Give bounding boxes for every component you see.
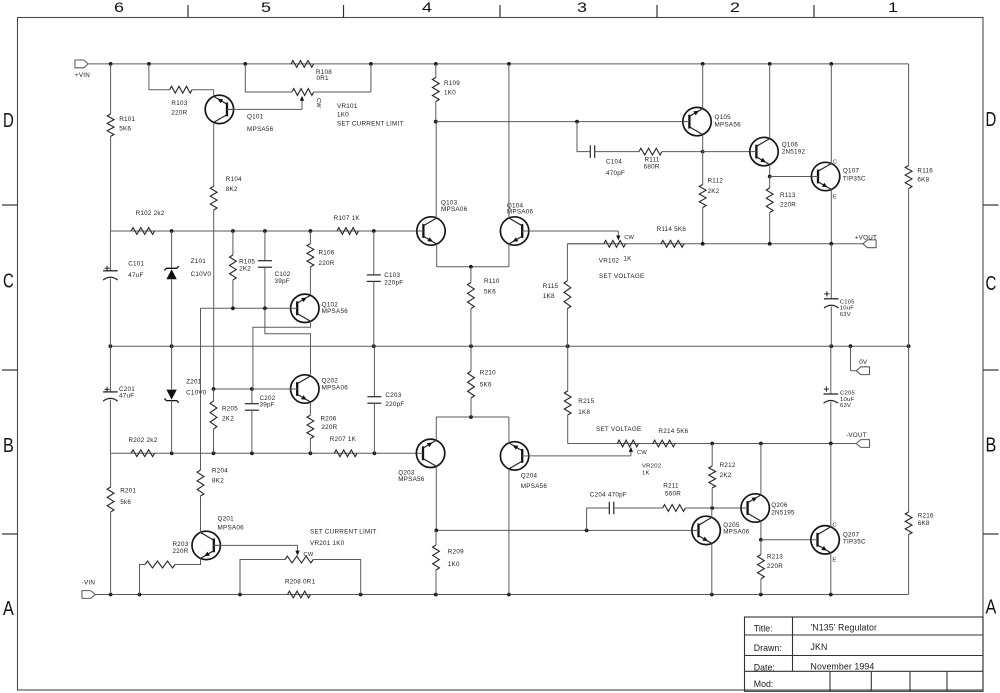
junction mid-rail/R105	[231, 229, 235, 233]
junction emitters/R210	[469, 415, 473, 419]
svg-text:1K0: 1K0	[337, 111, 349, 118]
svg-text:C: C	[833, 159, 838, 165]
junction +VIN/R109	[434, 62, 438, 66]
junction -VOUT/C205-Q207	[829, 442, 833, 446]
junction +VIN/Q107 collector	[829, 62, 833, 66]
resistor R211	[663, 482, 686, 511]
resistor R101	[107, 64, 135, 231]
wire Q104 collector	[508, 64, 510, 218]
svg-text:R209: R209	[448, 548, 464, 555]
svg-text:63V: 63V	[840, 403, 851, 409]
svg-text:1K8: 1K8	[578, 409, 590, 416]
svg-text:2K2: 2K2	[239, 265, 251, 272]
svg-text:220R: 220R	[321, 424, 337, 431]
wire R211 to Q206 base	[685, 507, 741, 509]
wiper arrow VR201	[295, 551, 313, 558]
junction Q102 base/R105	[231, 306, 235, 310]
wire VR201 right lead	[313, 560, 361, 595]
svg-text:Q201: Q201	[218, 515, 235, 522]
wire Q104 base to VR102 wiper	[529, 231, 619, 236]
svg-text:47uF: 47uF	[128, 272, 143, 279]
svg-text:Z201: Z201	[186, 379, 202, 386]
junction +VIN/Q106 collector	[768, 62, 772, 66]
svg-text:MPSA56: MPSA56	[398, 476, 425, 483]
junction +VIN/R108 right	[369, 62, 373, 66]
-VIN input terminal	[82, 579, 96, 598]
junction +VIN/R108 left	[243, 62, 247, 66]
wiper arrow VR102	[616, 235, 634, 241]
svg-text:C: C	[832, 522, 837, 528]
svg-text:R202 2k2: R202 2k2	[129, 437, 158, 444]
title block	[745, 617, 984, 691]
junction Q102 base/C102	[263, 306, 267, 310]
svg-text:R113: R113	[780, 192, 796, 199]
svg-text:6K8: 6K8	[917, 177, 929, 184]
svg-text:R110: R110	[484, 278, 500, 285]
junction +VIN/Q105 emitter	[701, 62, 705, 66]
resistor R106	[307, 231, 335, 295]
svg-text:SET VOLTAGE: SET VOLTAGE	[596, 426, 641, 433]
junction bot-mid/R205	[212, 451, 216, 455]
svg-text:-VOUT: -VOUT	[846, 432, 867, 439]
svg-text:560R: 560R	[665, 491, 681, 498]
svg-text:1K0: 1K0	[448, 561, 460, 568]
svg-text:5K6: 5K6	[119, 125, 131, 132]
capacitor C203	[367, 346, 404, 453]
wire R109 to Q103 collector	[435, 122, 437, 218]
wire Q202 base line	[214, 388, 291, 390]
svg-text:R115: R115	[543, 283, 559, 290]
junction -VIN/R203	[138, 593, 142, 597]
svg-text:MPSA56: MPSA56	[247, 126, 274, 133]
resistor R215	[564, 346, 594, 416]
svg-text:5: 5	[261, 0, 271, 15]
resistor R216	[905, 346, 934, 534]
svg-text:R216: R216	[918, 513, 934, 520]
transistor Q103	[417, 200, 468, 246]
wire Q106 emitter to Q107 base	[770, 176, 811, 178]
wire Q206 collector	[760, 444, 762, 495]
svg-text:C10V0: C10V0	[191, 271, 212, 278]
svg-text:Q105: Q105	[715, 114, 732, 121]
junction 0V/R110-R210	[469, 344, 473, 348]
svg-text:Q204: Q204	[521, 473, 538, 480]
resistor R210	[468, 346, 497, 417]
wire Q204 emitter	[508, 417, 510, 443]
-VOUT terminal	[846, 432, 870, 447]
transistor Q106	[750, 137, 806, 165]
wiper arrow VR101	[300, 96, 321, 109]
svg-text:5k6: 5k6	[120, 499, 131, 506]
junction C204 branch	[585, 529, 589, 533]
svg-text:VR202: VR202	[642, 464, 661, 470]
svg-text:2K2: 2K2	[720, 472, 732, 479]
svg-text:R204: R204	[212, 468, 228, 475]
svg-text:0V: 0V	[859, 359, 868, 366]
wire Q101 base to VR101 wiper	[227, 99, 302, 110]
svg-text:JKN: JKN	[811, 642, 828, 652]
wire C204 to R211	[614, 507, 663, 509]
capacitor C104	[590, 145, 625, 177]
wire Q201 emitter to R203	[175, 558, 201, 564]
svg-text:MPSA56: MPSA56	[521, 483, 548, 490]
resistor R203	[145, 541, 189, 568]
junction +VIN/R101	[109, 62, 113, 66]
wire VR201 left lead	[240, 560, 285, 595]
svg-text:-VIN: -VIN	[82, 579, 96, 586]
svg-text:1K8: 1K8	[543, 293, 555, 300]
wire VR102 left lead to R115	[567, 244, 604, 281]
svg-text:D: D	[986, 108, 997, 131]
svg-text:63V: 63V	[840, 312, 851, 318]
potentiometer VR101	[292, 89, 404, 128]
svg-text:6K8: 6K8	[918, 520, 930, 527]
0V terminal	[856, 359, 869, 375]
junction Q202 base/stair	[250, 387, 254, 391]
junction 0V/C105-C205	[829, 344, 833, 348]
svg-text:R212: R212	[720, 462, 736, 469]
junction mid-rail/C102	[263, 229, 267, 233]
svg-text:1K: 1K	[623, 256, 632, 263]
svg-text:C205: C205	[840, 391, 856, 397]
svg-text:5K6: 5K6	[484, 288, 496, 295]
+VIN input terminal	[75, 60, 90, 79]
svg-text:2: 2	[730, 0, 740, 15]
svg-text:R101: R101	[119, 116, 135, 123]
junction bot-mid/C202	[250, 451, 254, 455]
svg-text:+VIN: +VIN	[75, 72, 90, 79]
potentiometer VR102	[599, 240, 645, 279]
svg-text:10uF: 10uF	[840, 306, 855, 312]
svg-text:Z101: Z101	[191, 258, 207, 265]
junction 0V/R116-R216	[907, 344, 911, 348]
svg-text:+VOUT: +VOUT	[855, 234, 877, 241]
junction bot-mid/R206	[309, 451, 313, 455]
zener Z201	[164, 346, 206, 453]
svg-text:220R: 220R	[767, 563, 783, 570]
wire Q201 collector	[200, 496, 202, 533]
svg-text:SET VOLTAGE: SET VOLTAGE	[599, 273, 644, 280]
wire +VIN rail	[88, 63, 908, 65]
junction Q202 base/R104-R205	[212, 387, 216, 391]
resistor R102	[131, 210, 165, 234]
junction 0V/C101-C201	[109, 344, 113, 348]
wire Q102 collector stair	[253, 321, 311, 389]
svg-text:November 1994: November 1994	[811, 662, 875, 672]
wire Q105 base line	[436, 121, 683, 123]
svg-text:Q206: Q206	[771, 502, 788, 509]
wire Q106 base	[703, 151, 750, 153]
svg-text:220pF: 220pF	[385, 401, 404, 408]
resistor R202	[129, 437, 158, 457]
transistor Q105	[683, 107, 741, 135]
svg-text:D: D	[3, 109, 14, 132]
svg-text:MPSA06: MPSA06	[441, 206, 468, 213]
wire +VOUT rail	[567, 243, 863, 245]
resistor R108	[291, 61, 332, 83]
svg-text:3: 3	[577, 0, 587, 15]
junction +VIN/Q104 collector	[507, 62, 511, 66]
svg-text:MPSA06: MPSA06	[322, 384, 349, 391]
wire VR101 left lead	[245, 64, 292, 92]
svg-text:R103: R103	[171, 100, 187, 107]
wire -VIN rail	[95, 594, 908, 596]
svg-text:4: 4	[422, 0, 432, 15]
svg-text:MPSA56: MPSA56	[322, 308, 349, 315]
svg-text:C: C	[3, 270, 14, 293]
resistor R107	[334, 215, 361, 234]
zener Z101	[164, 231, 211, 346]
wire 0V center rail	[110, 345, 908, 347]
svg-text:VR201 1K0: VR201 1K0	[310, 540, 345, 547]
wire Q206 emitter	[760, 521, 762, 540]
svg-text:R207 1K: R207 1K	[330, 436, 357, 443]
transistor Q102	[291, 294, 349, 322]
junction -VIN/R213	[759, 593, 763, 597]
svg-text:R114 5K6: R114 5K6	[657, 226, 687, 233]
svg-text:0R1: 0R1	[317, 75, 330, 82]
capacitor C102	[258, 231, 291, 308]
svg-text:R111: R111	[645, 157, 660, 164]
wire Q205 collector	[711, 508, 713, 517]
transistor Q203	[398, 439, 445, 483]
svg-text:R214 5K6: R214 5K6	[658, 428, 688, 435]
wire +VIN rail corner down to R116	[908, 64, 910, 166]
wire top mid-rail	[110, 230, 416, 232]
junction Q106 emitter/R113	[768, 175, 772, 179]
svg-text:TIP35C: TIP35C	[843, 175, 866, 182]
resistor R201	[107, 453, 136, 594]
svg-text:1K: 1K	[642, 470, 650, 476]
resistor R113	[766, 177, 796, 244]
svg-text:39pF: 39pF	[260, 402, 275, 409]
wire Q206 emitter to Q207 base	[761, 539, 810, 541]
svg-text:R104: R104	[226, 176, 242, 183]
svg-text:220R: 220R	[171, 110, 187, 117]
wire Q203 emitter	[436, 417, 509, 440]
junction R212/Q205 collector	[710, 506, 714, 510]
junction -VOUT/Q206 collector	[759, 442, 763, 446]
svg-text:R106: R106	[319, 249, 335, 256]
svg-text:680R: 680R	[644, 164, 660, 171]
transistor Q207	[811, 526, 866, 554]
resistor R208	[285, 579, 316, 598]
svg-text:C103: C103	[384, 272, 400, 279]
wire Q203 collector	[435, 466, 437, 530]
wire Q105 emitter	[702, 64, 704, 109]
pin label E Q207	[832, 558, 836, 564]
svg-text:Q107: Q107	[843, 167, 860, 174]
junction -VIN/Q207 emitter	[829, 593, 833, 597]
junction -VIN/VR201 right	[359, 593, 363, 597]
capacitor C204	[590, 491, 627, 514]
wire Q204 collector	[508, 469, 510, 595]
svg-text:A: A	[986, 596, 997, 619]
0V stub wire	[851, 346, 857, 371]
transistor Q205	[692, 516, 750, 544]
junction -VIN/R209	[434, 593, 438, 597]
resistor R103	[170, 86, 193, 116]
transistor Q202	[291, 375, 349, 403]
svg-text:R206: R206	[321, 416, 337, 423]
svg-text:10uF: 10uF	[840, 397, 855, 403]
svg-text:R109: R109	[444, 80, 460, 87]
svg-text:39pF: 39pF	[275, 278, 290, 285]
junction 0V/0V-stub	[849, 344, 853, 348]
resistor R213	[758, 540, 784, 595]
svg-text:C203: C203	[385, 392, 401, 399]
junction bot-mid/Z201	[170, 451, 174, 455]
wire Q103 emitter	[437, 244, 509, 267]
svg-text:R107 1K: R107 1K	[334, 215, 361, 222]
capacitor C205	[824, 346, 856, 443]
svg-text:SET CURRENT LIMIT: SET CURRENT LIMIT	[310, 529, 377, 536]
capacitor C101	[103, 231, 144, 346]
svg-text:R201: R201	[120, 488, 136, 495]
svg-text:C101: C101	[128, 260, 144, 267]
svg-text:C105: C105	[840, 299, 856, 305]
svg-text:MPSA06: MPSA06	[218, 525, 245, 532]
junction -VIN/Q205 emitter	[710, 593, 714, 597]
capacitor C103	[367, 231, 404, 346]
svg-text:Date:: Date:	[754, 662, 775, 672]
svg-text:Q207: Q207	[843, 532, 860, 539]
junction 0V/C103-C203	[372, 344, 376, 348]
resistor R110	[468, 267, 500, 346]
resistor R109	[432, 64, 460, 122]
svg-text:Q101: Q101	[247, 114, 264, 121]
junction mid-rail/R106	[309, 229, 313, 233]
svg-text:2K2: 2K2	[222, 416, 234, 423]
junction Q206 emitter/R213	[759, 538, 763, 542]
wire Q207 collector	[830, 444, 832, 527]
svg-text:220R: 220R	[319, 260, 335, 267]
wire -VOUT rail	[568, 443, 857, 445]
svg-text:C10V0: C10V0	[186, 390, 207, 397]
wire R103 to Q101 emitter	[192, 90, 214, 96]
capacitor C202	[245, 389, 276, 453]
wire Q107 collector	[830, 64, 832, 163]
potentiometer VR201	[285, 529, 377, 563]
svg-text:R116: R116	[917, 168, 933, 175]
wire VR101 right lead	[314, 64, 371, 92]
svg-text:MPSA56: MPSA56	[715, 121, 742, 128]
pin label E Q107	[833, 194, 837, 200]
transistor Q104	[500, 202, 533, 245]
svg-text:470pF: 470pF	[606, 170, 625, 177]
svg-text:VR101: VR101	[337, 103, 358, 110]
wire Q106 emitter	[769, 165, 771, 177]
svg-text:8K2: 8K2	[212, 478, 224, 485]
wire Q201 base to VR201 wiper	[214, 545, 298, 551]
resistor R112	[699, 152, 723, 244]
resistor R207	[330, 436, 357, 457]
svg-text:Drawn:: Drawn:	[754, 643, 782, 653]
svg-text:A: A	[3, 597, 14, 620]
junction -VIN/Q204 collector	[507, 593, 511, 597]
wire -VIN rail corner up to R216	[908, 535, 910, 595]
svg-text:E: E	[832, 558, 836, 564]
junction C104 branch	[575, 120, 579, 124]
junction -VOUT/R212	[710, 442, 714, 446]
svg-text:220R: 220R	[173, 548, 189, 555]
wire Q104 emitter	[508, 244, 510, 267]
transistor Q206	[741, 494, 795, 522]
svg-text:R213: R213	[767, 554, 783, 561]
svg-text:1: 1	[888, 0, 898, 15]
svg-text:R211: R211	[663, 482, 679, 489]
junction +VOUT/Q107-C105	[829, 242, 833, 246]
wiper arrow VR202	[629, 447, 648, 456]
svg-text:2N5195: 2N5195	[771, 509, 795, 516]
wire Q204 base to VR202 wiper	[529, 451, 631, 456]
wire Q107 emitter	[830, 190, 832, 244]
wire C104 branch	[577, 122, 590, 152]
transistor Q204	[500, 442, 547, 491]
svg-text:TIP35C: TIP35C	[843, 539, 866, 546]
resistor R212	[709, 444, 736, 509]
wire R203 left lead	[140, 565, 146, 595]
junction +VOUT/R113	[768, 242, 772, 246]
svg-text:Title:: Title:	[754, 624, 773, 634]
junction -VIN/VR201 left	[238, 593, 242, 597]
wire R103 branch	[149, 64, 170, 90]
svg-text:CW: CW	[624, 235, 634, 241]
svg-text:C204 470pF: C204 470pF	[590, 491, 627, 498]
junction Q105 collector/R112	[701, 150, 705, 154]
capacitor C201	[103, 346, 135, 453]
svg-text:SET CURRENT LIMIT: SET CURRENT LIMIT	[337, 120, 404, 127]
wire Q202 collector stair	[265, 308, 311, 376]
svg-text:R208 0R1: R208 0R1	[285, 579, 316, 586]
svg-text:47uF: 47uF	[119, 392, 134, 399]
svg-text:220R: 220R	[780, 201, 796, 208]
wire C104 to R111	[595, 151, 639, 153]
svg-text:Q106: Q106	[782, 141, 799, 148]
junction R109/Q105 base line	[434, 120, 438, 124]
resistor R114	[657, 226, 687, 247]
wire C204 branch	[587, 508, 610, 530]
svg-text:E: E	[833, 194, 837, 200]
svg-text:CW: CW	[637, 450, 647, 456]
junction Q203 collector/R209	[434, 529, 438, 533]
svg-text:R215: R215	[578, 398, 594, 405]
wire Q205 base line	[436, 529, 692, 531]
svg-text:CW: CW	[315, 98, 321, 108]
resistor R104	[210, 123, 242, 389]
svg-text:R210: R210	[480, 370, 496, 377]
svg-text:B: B	[986, 434, 997, 457]
wire VR202 left lead to R215	[568, 415, 618, 444]
junction mid-rail/Z101	[170, 229, 174, 233]
svg-text:R102 2k2: R102 2k2	[136, 210, 165, 217]
wire Q106 collector	[769, 64, 771, 138]
capacitor C105	[824, 244, 855, 346]
svg-text:Mod:: Mod:	[754, 679, 774, 689]
pin label C Q107	[833, 159, 838, 165]
resistor R206	[307, 402, 338, 453]
svg-text:8K2: 8K2	[226, 186, 238, 193]
wire bottom mid-rail	[110, 452, 416, 454]
resistor R204	[197, 468, 228, 532]
resistor R111	[639, 148, 662, 170]
potentiometer VR202	[596, 426, 661, 476]
svg-text:5K6: 5K6	[480, 382, 492, 389]
resistor R209	[433, 530, 465, 594]
transistor Q107	[811, 162, 866, 190]
junction emitters/R110	[469, 265, 473, 269]
pin label C Q207	[832, 522, 837, 528]
